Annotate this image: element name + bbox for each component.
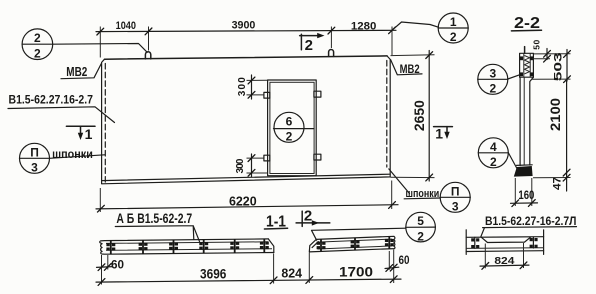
svg-text:300: 300 [237, 77, 248, 96]
svg-text:47: 47 [552, 177, 564, 190]
svg-text:2: 2 [450, 30, 457, 44]
svg-text:3696: 3696 [200, 266, 227, 281]
svg-text:П: П [30, 145, 39, 159]
svg-text:А Б В1.5-62-2.7: А Б В1.5-62-2.7 [116, 211, 192, 226]
svg-text:6: 6 [286, 115, 293, 129]
svg-text:1040: 1040 [116, 20, 136, 32]
svg-text:2: 2 [305, 37, 313, 54]
svg-text:1700: 1700 [339, 264, 373, 279]
svg-text:3: 3 [489, 66, 496, 80]
svg-text:2: 2 [490, 155, 497, 169]
svg-text:1: 1 [450, 15, 457, 29]
svg-text:503: 503 [553, 52, 565, 81]
svg-text:шпонки: шпонки [52, 147, 93, 161]
svg-text:4: 4 [490, 140, 497, 154]
svg-text:3: 3 [31, 161, 38, 175]
svg-text:МВ2: МВ2 [66, 65, 87, 79]
svg-text:300: 300 [235, 158, 246, 173]
svg-text:3: 3 [452, 200, 459, 214]
svg-text:50: 50 [532, 40, 542, 50]
svg-text:2: 2 [286, 130, 293, 144]
svg-text:2100: 2100 [547, 98, 563, 131]
svg-text:1: 1 [85, 126, 93, 142]
svg-text:824: 824 [281, 266, 302, 281]
svg-text:60: 60 [399, 253, 410, 267]
svg-text:2: 2 [34, 46, 41, 60]
svg-text:60: 60 [111, 257, 124, 271]
svg-text:2: 2 [304, 207, 312, 224]
svg-text:824: 824 [494, 256, 515, 267]
svg-text:160: 160 [518, 188, 534, 202]
svg-text:3900: 3900 [232, 20, 256, 32]
svg-text:5: 5 [417, 214, 424, 228]
svg-text:1280: 1280 [351, 20, 377, 32]
svg-text:2: 2 [417, 229, 424, 243]
svg-text:В1.5-62.27.16-2.7: В1.5-62.27.16-2.7 [9, 93, 94, 107]
svg-text:2650: 2650 [412, 100, 427, 131]
svg-text:П: П [451, 184, 460, 198]
svg-text:6220: 6220 [229, 193, 257, 208]
svg-text:2: 2 [34, 31, 41, 45]
svg-text:2: 2 [489, 82, 496, 96]
svg-text:1: 1 [435, 126, 443, 142]
svg-text:2-2: 2-2 [514, 15, 540, 32]
